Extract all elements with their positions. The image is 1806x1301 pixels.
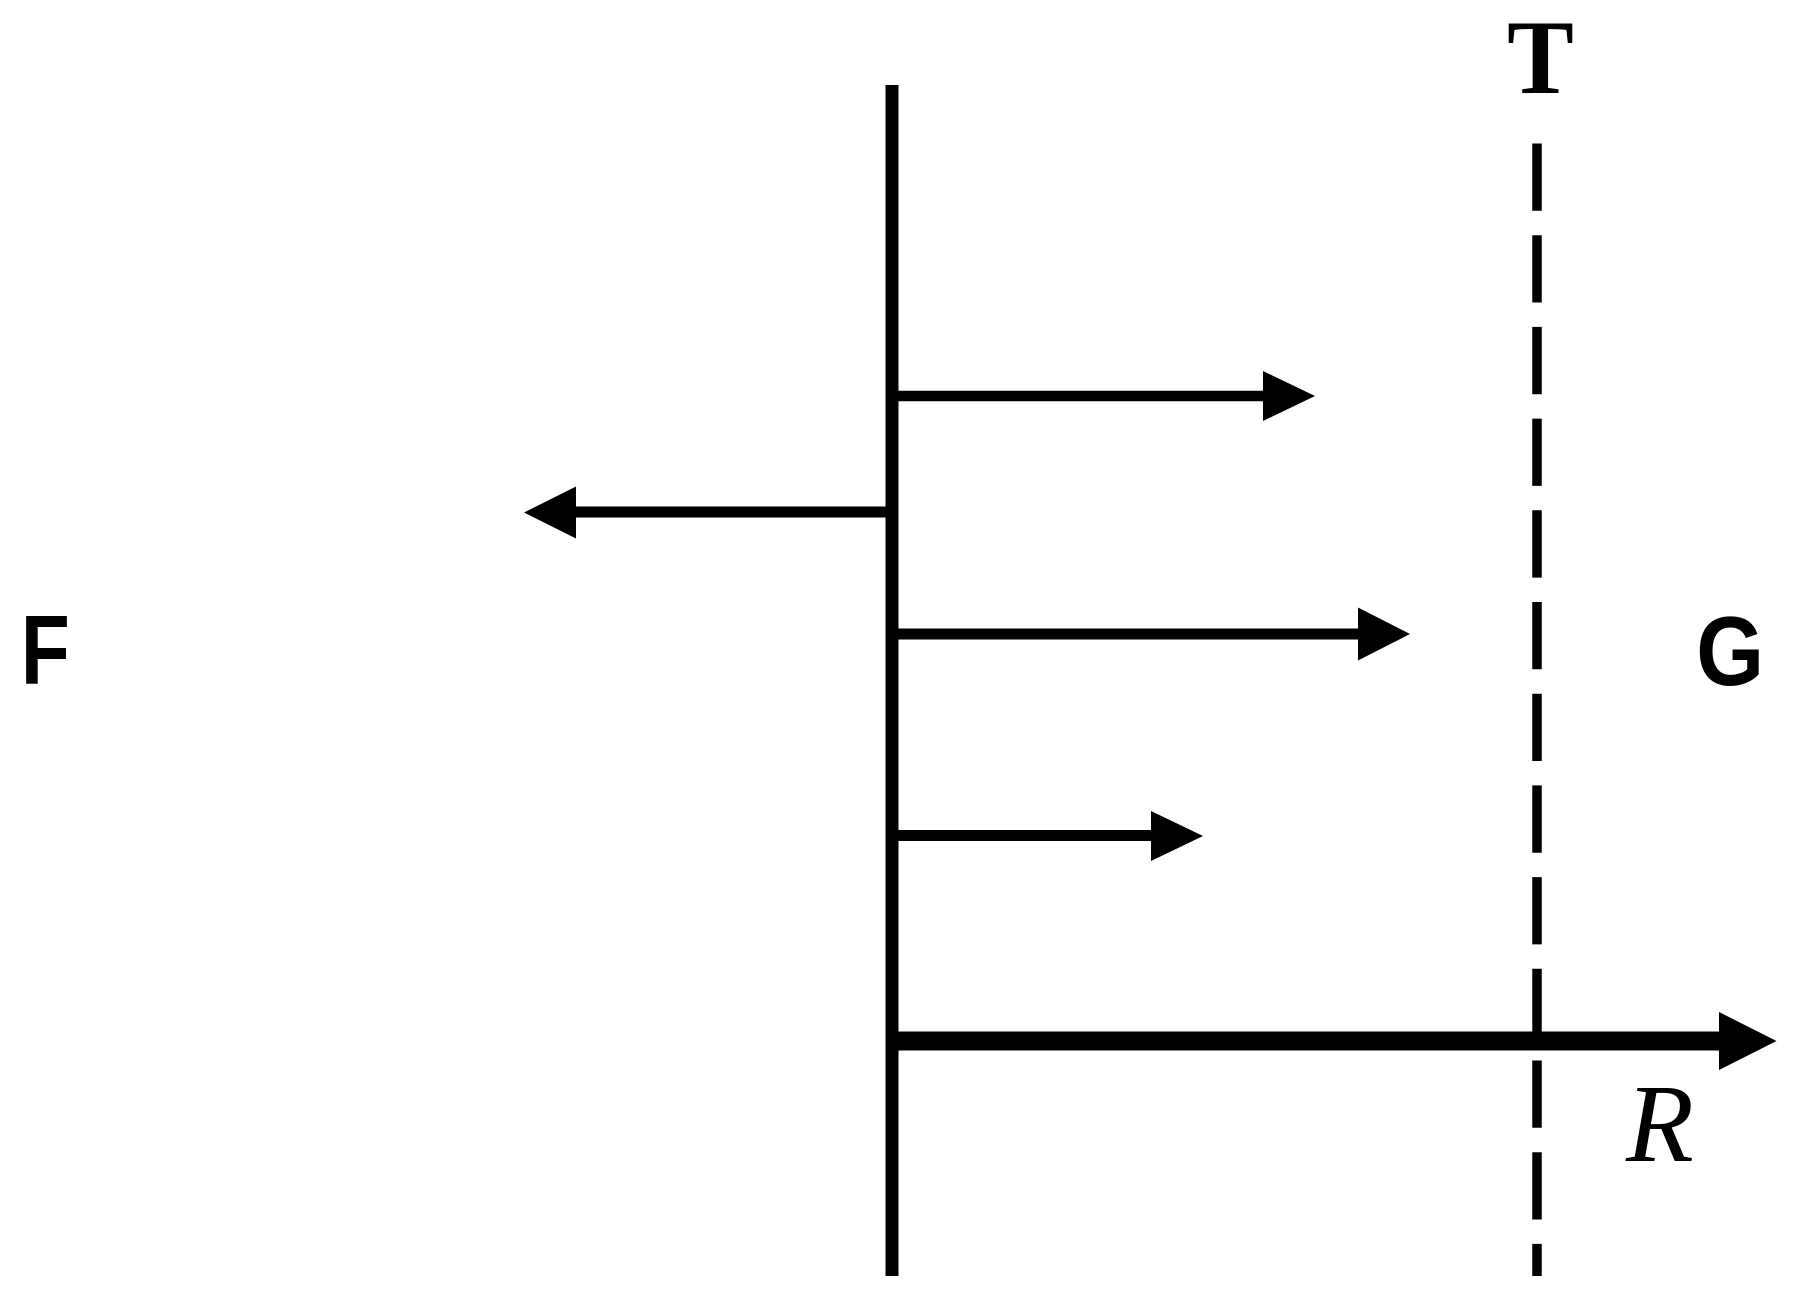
arrow 2 head [524, 487, 576, 539]
svg-text:F: F [21, 595, 70, 704]
svg-text:T: T [1507, 0, 1574, 117]
wire: arrow 2 shaft (left arrow) [572, 507, 892, 518]
svg-text:G: G [1696, 596, 1764, 706]
arrow 4 head [1151, 811, 1203, 861]
wire: arrow 4 shaft (lower right arrow) [892, 830, 1155, 841]
dashed threshold line T [1532, 144, 1542, 1277]
arrow R head [1719, 1012, 1777, 1070]
svg-text:R: R [1625, 1063, 1694, 1186]
arrow 3 head [1358, 608, 1410, 661]
wire: arrow 1 shaft (top right arrow) [892, 391, 1268, 402]
wire: arrow R shaft (thick axis arrow) [892, 1032, 1724, 1051]
arrow 1 head [1263, 371, 1315, 421]
solid vertical barrier line [886, 85, 899, 1276]
wire: arrow 3 shaft (middle right arrow) [892, 629, 1362, 640]
